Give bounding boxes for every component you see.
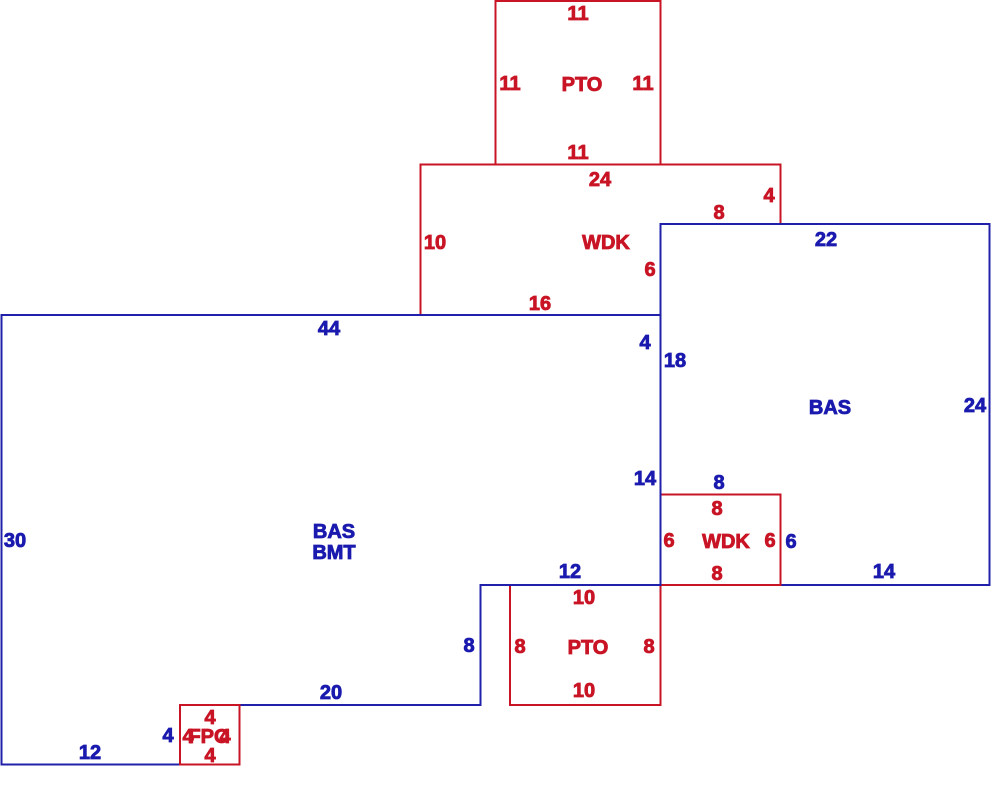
svg-text:10: 10: [424, 232, 446, 254]
svg-text:BAS: BAS: [809, 397, 851, 419]
svg-text:24: 24: [964, 395, 987, 417]
svg-text:6: 6: [644, 259, 655, 281]
svg-text:8: 8: [711, 498, 722, 520]
svg-text:44: 44: [318, 318, 341, 340]
patio PTO bottom rectangle: [510, 585, 661, 705]
svg-text:4: 4: [639, 332, 651, 354]
svg-text:12: 12: [79, 742, 101, 764]
svg-text:8: 8: [514, 636, 525, 658]
svg-text:18: 18: [664, 350, 686, 372]
svg-text:6: 6: [663, 530, 674, 552]
svg-text:8: 8: [711, 563, 722, 585]
svg-text:8: 8: [643, 636, 654, 658]
svg-text:WDK: WDK: [582, 232, 630, 254]
fireplace FPO small square: [180, 705, 240, 765]
svg-text:10: 10: [573, 587, 595, 609]
svg-text:8: 8: [713, 202, 724, 224]
svg-text:BMT: BMT: [312, 542, 355, 564]
svg-text:14: 14: [634, 468, 657, 490]
svg-text:11: 11: [632, 73, 653, 95]
svg-text:11: 11: [499, 73, 520, 95]
svg-text:11: 11: [567, 142, 588, 164]
svg-text:4: 4: [162, 725, 174, 747]
svg-text:BAS: BAS: [313, 521, 355, 543]
svg-text:20: 20: [320, 682, 342, 704]
svg-text:8: 8: [713, 472, 724, 494]
svg-text:6: 6: [764, 530, 775, 552]
svg-text:WDK: WDK: [702, 531, 750, 553]
svg-text:24: 24: [589, 169, 612, 191]
svg-text:8: 8: [463, 635, 474, 657]
svg-text:30: 30: [4, 530, 26, 552]
svg-text:6: 6: [785, 531, 796, 553]
svg-text:PTO: PTO: [568, 637, 609, 659]
svg-text:11: 11: [567, 3, 588, 25]
svg-text:4: 4: [763, 185, 775, 207]
svg-text:PTO: PTO: [562, 74, 603, 96]
svg-text:16: 16: [529, 293, 551, 315]
svg-text:12: 12: [559, 561, 581, 583]
wood deck WDK upper L-shaped outline: [421, 165, 781, 316]
wood deck WDK small rectangle: [661, 495, 781, 586]
basement BMT large polygon: [2, 315, 661, 765]
svg-text:4: 4: [204, 745, 216, 767]
svg-text:14: 14: [873, 561, 896, 583]
svg-text:22: 22: [815, 229, 837, 251]
svg-text:10: 10: [573, 680, 595, 702]
svg-text:4: 4: [219, 726, 231, 748]
basement BAS right rectangle: [661, 224, 990, 585]
patio PTO top rectangle: [496, 1, 661, 165]
